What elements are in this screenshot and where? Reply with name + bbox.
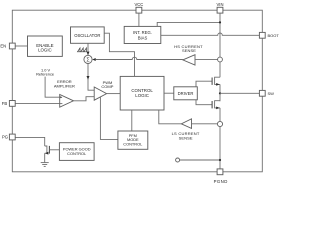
ramp waveform icon	[78, 48, 87, 52]
wire LS source sense stub	[180, 159, 220, 161]
pin PGND	[214, 169, 228, 184]
svg-text:BOOT: BOOT	[268, 33, 280, 38]
wire LS sense output to control logic	[159, 110, 182, 124]
ground	[41, 163, 49, 167]
svg-text:EN: EN	[0, 44, 6, 49]
svg-text:DRIVER: DRIVER	[178, 91, 194, 96]
svg-text:LOGIC: LOGIC	[38, 48, 52, 53]
1.0V reference label	[36, 67, 54, 76]
wire trunk HS source to LS drain	[219, 84, 221, 101]
wire error amp output to PWM comp	[74, 97, 95, 101]
wire LS sense input	[192, 123, 218, 125]
svg-text:SENSE: SENSE	[182, 48, 196, 53]
svg-text:OSCILLATOR: OSCILLATOR	[74, 33, 100, 38]
control logic U_CTRL	[120, 76, 164, 110]
HS sense tap circle	[218, 57, 223, 62]
wire VIN trunk upper	[219, 13, 221, 77]
svg-text:CONTROL: CONTROL	[123, 142, 143, 147]
HS current sense amp	[174, 44, 203, 65]
int reg bias U_BIAS	[124, 26, 161, 43]
pin FB	[2, 101, 15, 107]
svg-text:VIN: VIN	[217, 2, 224, 7]
driver U_DRV	[174, 87, 198, 100]
LS source sense terminal circle	[176, 158, 180, 162]
wire trunk LS source to PGND	[219, 108, 221, 169]
LS sense tap circle	[217, 121, 222, 126]
svg-text:Reference: Reference	[36, 72, 54, 77]
enable logic U_EN	[28, 36, 63, 56]
wire control logic to PFM mode control	[131, 110, 133, 131]
wire SW node to pin	[220, 92, 259, 94]
wire driver to LS gate	[196, 100, 212, 105]
PFM mode control U_PFM	[118, 131, 148, 149]
wire PG FET gate to power good control	[49, 149, 59, 151]
PWM comparator U_PWM	[94, 80, 114, 100]
wire PG pin to PG FET drain	[15, 137, 44, 146]
pin SW	[259, 90, 274, 96]
svg-text:INT. REG.: INT. REG.	[133, 30, 152, 35]
power good control U_PG	[59, 143, 94, 161]
svg-text:PG: PG	[2, 135, 8, 140]
pin BOOT	[259, 32, 279, 38]
transistor LS FET	[212, 101, 220, 110]
svg-text:FB: FB	[2, 101, 8, 106]
wire VCC to int reg bias	[138, 13, 140, 26]
wire HS sense to summer (hop over clock line)	[96, 57, 183, 59]
wire FB pin to error amp - input	[15, 103, 60, 105]
IC outline	[12, 10, 262, 172]
wire control logic to driver	[164, 92, 174, 94]
pin PG	[2, 134, 15, 140]
wire summer to PWM comp	[88, 64, 94, 91]
pin EN	[9, 43, 15, 49]
svg-text:BIAS: BIAS	[138, 36, 148, 41]
summer S1	[84, 55, 92, 63]
wire tap to PFM mode control	[100, 97, 118, 139]
wire reference to error amp + input	[45, 77, 60, 98]
node stub junction	[219, 159, 221, 161]
wire EN pin to enable logic	[15, 45, 27, 47]
wire bias to BOOT with hop over VIN trunk	[161, 33, 260, 35]
svg-text:SW: SW	[268, 91, 275, 96]
pin VIN	[217, 2, 224, 13]
svg-text:COMP: COMP	[101, 84, 113, 89]
wire oscillator ramp to summer	[87, 43, 89, 55]
error amplifier U_EA	[54, 79, 75, 107]
wire PWM comp output to control logic	[107, 93, 121, 95]
svg-text:AMPLIFIER: AMPLIFIER	[54, 84, 75, 89]
wire VIN branch to bias	[157, 22, 220, 26]
transistor HS FET	[212, 77, 220, 86]
oscillator U_OSC	[71, 27, 105, 43]
svg-text:CONTROL: CONTROL	[67, 151, 87, 156]
svg-text:PGND: PGND	[214, 179, 228, 184]
node SW junction	[219, 92, 221, 94]
svg-text:LOGIC: LOGIC	[135, 93, 149, 98]
pin VCC	[134, 2, 143, 13]
wire driver to HS gate	[196, 81, 212, 87]
svg-text:VCC: VCC	[134, 2, 143, 7]
LS current sense amp	[172, 119, 200, 141]
svg-text:SENSE: SENSE	[179, 135, 193, 140]
transistor PG FET	[45, 146, 50, 163]
wire oscillator clock to control logic	[104, 33, 134, 76]
node VIN branch junction	[219, 21, 221, 23]
wire HS sense input	[195, 59, 218, 61]
svg-text:Σ: Σ	[86, 57, 89, 63]
